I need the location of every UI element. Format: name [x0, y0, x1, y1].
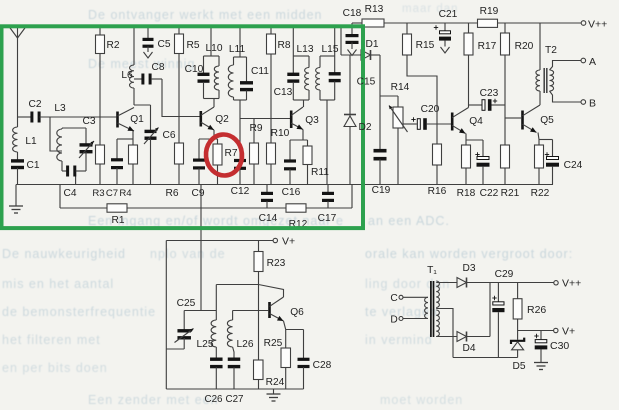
diode D1: [361, 39, 380, 60]
resistor R23: [254, 241, 286, 285]
svg-text:C: C: [390, 293, 397, 304]
capacitor C21: [434, 9, 458, 53]
svg-text:L13: L13: [297, 44, 314, 55]
svg-text:D1: D1: [365, 39, 378, 50]
capacitor C20: [403, 104, 451, 130]
svg-text:C15: C15: [357, 77, 376, 88]
svg-text:De nauwkeurigheid: De nauwkeurigheid: [2, 247, 126, 261]
svg-text:C16: C16: [282, 187, 301, 198]
wire center tap: [436, 309, 453, 358]
svg-text:D4: D4: [462, 343, 475, 354]
wire R20 to Q5 base: [505, 55, 521, 145]
wire Q6 base wire: [233, 310, 269, 312]
inductor L13: [297, 44, 314, 100]
capacitor C27: [226, 358, 244, 406]
potentiometer R14: [389, 82, 410, 185]
svg-text:C23: C23: [480, 88, 499, 99]
wire lower rail left drop: [59, 185, 61, 209]
transistor Q6: [268, 297, 304, 321]
wire T2 to Q5 collector: [539, 91, 541, 105]
wire Q1 collector node: [134, 104, 151, 106]
transistor Q2: [200, 107, 230, 130]
terminal V++ psu: [554, 278, 581, 290]
resistor R9: [249, 119, 262, 185]
svg-text:in vermind: in vermind: [365, 333, 433, 347]
svg-text:C18: C18: [343, 8, 362, 19]
wire secondary bottom: [436, 336, 457, 338]
svg-text:Q1: Q1: [130, 114, 144, 125]
label D2: [358, 122, 371, 133]
capacitor C12: [231, 119, 250, 198]
wire secondary top: [436, 282, 457, 284]
capacitor C9: [191, 139, 205, 199]
svg-text:Q3: Q3: [305, 115, 319, 126]
svg-text:T₁: T₁: [427, 265, 437, 276]
svg-text:L6: L6: [121, 70, 133, 81]
svg-text:Q4: Q4: [469, 116, 483, 127]
svg-text:B: B: [589, 98, 596, 110]
resistor R16: [428, 124, 447, 197]
svg-text:C30: C30: [550, 340, 569, 352]
svg-text:Q5: Q5: [540, 115, 554, 126]
svg-text:R11: R11: [311, 167, 329, 178]
wire lower rail right riser: [351, 185, 353, 209]
inductor L3: [57, 128, 62, 171]
antenna: [9, 25, 26, 117]
wire C19 column: [379, 55, 381, 150]
resistor R22: [531, 145, 550, 199]
wire tank3 top: [293, 55, 309, 57]
wire tank4 bottom: [320, 99, 335, 101]
wire top rail: [352, 22, 581, 24]
svg-text:de bemonsterfrequentie: de bemonsterfrequentie: [2, 305, 156, 319]
svg-text:R23: R23: [267, 258, 286, 269]
wire tank1 riser: [210, 27, 212, 56]
resistor R25: [264, 338, 291, 389]
transformer T1: [425, 265, 440, 337]
capacitor C24: [545, 140, 583, 185]
svg-text:nplo van de: nplo van de: [150, 247, 226, 261]
svg-text:R7: R7: [224, 148, 237, 159]
wire antenna to C2: [18, 116, 32, 118]
svg-text:T2: T2: [545, 45, 557, 56]
svg-text:C5: C5: [157, 39, 170, 50]
inductor L25: [197, 285, 217, 359]
capacitor C23: [469, 88, 506, 111]
resistor R15: [403, 23, 435, 55]
svg-text:R26: R26: [527, 304, 546, 316]
resistor R17: [464, 23, 497, 55]
wire tank1 top: [204, 55, 220, 57]
svg-text:Een zender met een: Een zender met een: [88, 393, 219, 407]
svg-text:R24: R24: [266, 377, 285, 388]
svg-text:L11: L11: [229, 44, 246, 55]
svg-text:R13: R13: [365, 4, 384, 15]
terminal D: [390, 315, 428, 326]
wire mixer injection: [200, 185, 202, 311]
wire T2 primary feed: [539, 23, 541, 70]
wire D1 feed: [341, 27, 361, 55]
resistor R24: [254, 285, 285, 390]
diode D4: [457, 332, 476, 355]
capacitor C19: [372, 149, 391, 196]
resistor R19: [478, 6, 499, 27]
capacitor C28: [298, 330, 332, 390]
svg-text:R16: R16: [428, 186, 447, 197]
resistor R12: [286, 204, 308, 230]
svg-text:De ontvanger werkt met een mid: De ontvanger werkt met een midden: [88, 8, 323, 22]
wire osc collector node: [216, 285, 283, 298]
wire tank3 riser: [292, 27, 294, 56]
wire Q5 emitter node: [538, 133, 553, 146]
resistor R3: [92, 117, 104, 199]
resistor R5: [175, 27, 200, 54]
transistor Q3: [290, 107, 319, 130]
capacitor C5: [143, 27, 171, 58]
svg-text:C27: C27: [226, 394, 244, 405]
terminal V+ psu: [554, 326, 576, 338]
svg-text:R5: R5: [186, 40, 199, 51]
capacitor C26: [205, 358, 224, 406]
svg-text:C25: C25: [177, 298, 196, 309]
inductor L1: [13, 117, 37, 162]
resistor R21: [501, 145, 520, 199]
terminal V+: [273, 236, 295, 248]
wire Q4 emitter node: [466, 134, 483, 141]
svg-text:R19: R19: [480, 6, 499, 17]
svg-text:L1: L1: [25, 136, 37, 147]
capacitor C7: [106, 139, 123, 199]
wire tank2 riser: [239, 27, 241, 57]
ground C30: [534, 363, 548, 370]
svg-text:L26: L26: [237, 339, 254, 350]
capacitor C3: [79, 116, 96, 171]
svg-text:C4: C4: [63, 188, 76, 199]
wire psu bottom rail: [453, 357, 518, 359]
svg-text:R2: R2: [106, 40, 119, 51]
wire tank top: [62, 127, 86, 129]
svg-text:D3: D3: [462, 263, 475, 274]
svg-text:ling door dan: ling door dan: [365, 277, 450, 291]
wire tank4 top: [320, 55, 335, 57]
wire R5 to base node: [178, 54, 180, 117]
resistor R4: [119, 139, 137, 199]
wire tank4 riser: [334, 27, 336, 56]
svg-text:C7: C7: [106, 188, 118, 199]
resistor R1: [107, 204, 127, 226]
resistor R11: [303, 140, 329, 185]
svg-text:R25: R25: [264, 338, 283, 349]
svg-text:V++: V++: [562, 278, 581, 290]
wire Q4 collector: [468, 55, 470, 108]
wire tank3 bottom: [293, 100, 309, 107]
svg-text:R3: R3: [92, 188, 104, 199]
svg-text:C6: C6: [162, 130, 175, 141]
wire Q6 emitter node: [284, 321, 304, 348]
wire secondary to A: [550, 61, 582, 71]
red ellipse annotation around R7: [204, 133, 243, 177]
capacitor C14: [259, 185, 278, 225]
svg-text:R20: R20: [515, 41, 534, 52]
svg-text:C12: C12: [231, 186, 250, 197]
wire tank2 bottom: [234, 99, 247, 101]
capacitor C2: [28, 99, 41, 123]
inductor L11: [228, 44, 245, 100]
capacitor C6: [144, 105, 176, 185]
wire osc bottom rail: [166, 388, 303, 390]
diode D2: [344, 115, 356, 185]
svg-text:V+: V+: [562, 326, 575, 338]
svg-text:R10: R10: [271, 128, 290, 139]
wire D2 column: [349, 55, 351, 116]
ground: [9, 185, 23, 214]
svg-text:V++: V++: [588, 19, 607, 31]
diode D3: [457, 263, 476, 288]
svg-text:D5: D5: [512, 361, 525, 372]
ground rail: [16, 184, 553, 186]
svg-text:C22: C22: [480, 188, 499, 199]
svg-text:R22: R22: [531, 188, 550, 199]
wire R14 feed: [380, 95, 398, 97]
svg-text:R4: R4: [119, 188, 132, 199]
capacitor C30: [534, 331, 569, 363]
capacitor C10: [185, 56, 210, 99]
svg-text:C21: C21: [439, 9, 458, 20]
wire Q3 emitter node: [290, 130, 308, 141]
capacitor C11: [240, 57, 269, 100]
terminal V++: [581, 19, 607, 31]
svg-text:C3: C3: [82, 116, 95, 127]
svg-text:R9: R9: [249, 123, 262, 134]
wire V+ rail: [166, 240, 273, 242]
wire D4 up: [467, 283, 491, 337]
svg-text:R15: R15: [416, 40, 435, 51]
svg-text:V+: V+: [282, 236, 295, 248]
wire D3 to Vpp: [467, 282, 554, 284]
capacitor C4: [62, 166, 86, 200]
resistor R8: [267, 27, 291, 54]
wire Q3 base wire: [240, 118, 290, 120]
capacitor C16: [282, 140, 301, 198]
capacitor C17: [318, 185, 337, 225]
svg-text:R18: R18: [457, 188, 476, 199]
wire R2 to base: [99, 54, 101, 118]
terminal A: [581, 56, 596, 68]
svg-text:C24: C24: [564, 160, 583, 171]
svg-text:an een ADC.: an een ADC.: [368, 214, 450, 228]
svg-text:R17: R17: [478, 41, 497, 52]
svg-text:C8: C8: [151, 62, 164, 73]
svg-text:C26: C26: [205, 394, 224, 405]
svg-text:R6: R6: [165, 188, 178, 199]
svg-text:C9: C9: [191, 188, 204, 199]
svg-text:L15: L15: [322, 44, 339, 55]
svg-text:moet worden: moet worden: [380, 393, 463, 407]
svg-text:orale kan worden vergroot door: orale kan worden vergroot door:: [365, 247, 573, 261]
green highlight box annotation: [2, 26, 364, 228]
svg-text:C13: C13: [274, 87, 293, 98]
wire lower rail: [60, 207, 352, 209]
terminal C: [390, 293, 428, 304]
resistor R10: [267, 128, 290, 185]
wire V+ out: [518, 330, 554, 332]
svg-text:C10: C10: [185, 64, 204, 75]
capacitor C29: [492, 269, 513, 358]
wire R8 to base wire: [270, 54, 272, 143]
wire tank1 bottom: [204, 99, 220, 108]
wire tank2 top: [234, 56, 247, 58]
svg-text:D: D: [390, 315, 397, 326]
ground osc: [267, 389, 281, 401]
wire R15 to base node: [407, 55, 437, 124]
capacitor C8: [134, 62, 165, 85]
capacitor C1: [11, 159, 40, 184]
svg-text:A: A: [589, 56, 596, 68]
svg-text:R21: R21: [501, 188, 520, 199]
transistor Q1: [116, 108, 144, 132]
resistor R7: [213, 139, 238, 185]
svg-text:D2: D2: [358, 122, 371, 133]
capacitor C22: [475, 140, 498, 199]
resistor R26: [513, 283, 546, 331]
label C15: [357, 77, 376, 88]
svg-text:R14: R14: [391, 82, 410, 93]
inductor L6: [121, 27, 134, 105]
capacitor C25: [166, 298, 216, 349]
svg-text:C29: C29: [495, 269, 514, 280]
wire tank tap: [50, 117, 62, 151]
inductor L15: [316, 44, 339, 100]
resistor R2: [96, 27, 120, 54]
wire C2 to Q1 base: [40, 103, 117, 117]
resistor R20: [501, 23, 534, 55]
svg-text:R8: R8: [277, 40, 290, 51]
wire Q1 emitter node: [117, 131, 133, 139]
svg-text:R1: R1: [111, 215, 124, 226]
svg-text:C19: C19: [372, 185, 391, 196]
transformer T2: [536, 45, 557, 93]
svg-text:Q2: Q2: [215, 114, 229, 125]
svg-text:C11: C11: [251, 66, 269, 77]
inductor L10: [206, 43, 223, 99]
resistor R18: [457, 140, 476, 199]
transistor Q4: [451, 108, 483, 134]
capacitor C13: [274, 56, 300, 100]
svg-text:C14: C14: [259, 213, 278, 224]
svg-text:Q6: Q6: [290, 307, 304, 318]
terminal B: [581, 98, 596, 110]
wire Q2 emitter node: [199, 130, 218, 139]
svg-text:L25: L25: [197, 339, 214, 350]
zener D5: [511, 331, 526, 373]
wire secondary to B: [550, 91, 582, 102]
wire tank2 to base wire: [239, 100, 241, 119]
svg-text:C1: C1: [26, 160, 39, 171]
inductor L26: [227, 311, 253, 359]
wire tank4 to ground: [326, 100, 328, 185]
svg-text:mis en het aantal: mis en het aantal: [2, 277, 114, 291]
svg-text:L3: L3: [54, 103, 66, 114]
resistor R13: [362, 4, 384, 27]
wire osc left side: [165, 241, 167, 390]
capacitor C18: [343, 8, 362, 56]
svg-text:en per bits doen: en per bits doen: [2, 361, 108, 375]
svg-text:C17: C17: [318, 213, 337, 224]
capacitor tank4: [329, 56, 341, 100]
transistor Q5: [521, 105, 554, 133]
svg-text:C28: C28: [313, 360, 332, 371]
svg-text:L10: L10: [206, 43, 223, 54]
resistor R6: [165, 117, 183, 200]
svg-text:het filteren met: het filteren met: [2, 333, 101, 347]
wire C8 to Q2 base: [162, 79, 200, 117]
svg-text:C2: C2: [28, 99, 41, 110]
